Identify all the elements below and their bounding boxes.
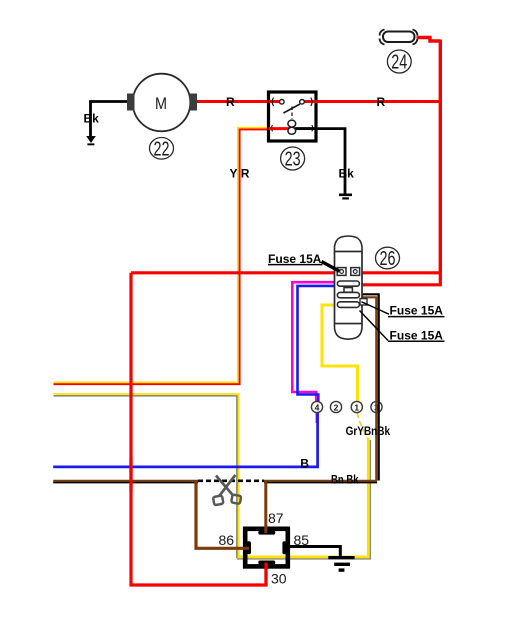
switch blade xyxy=(284,104,301,113)
small clip right xyxy=(360,299,367,305)
blade link dashes xyxy=(291,107,293,120)
label Fuse 15A low xyxy=(360,311,445,343)
svg-text:Bn Bk: Bn Bk xyxy=(331,475,359,487)
red vertical left long xyxy=(131,273,266,585)
svg-text:GrYBnBk: GrYBnBk xyxy=(346,426,391,438)
svg-text:R: R xyxy=(241,167,250,181)
label 23 xyxy=(281,147,305,171)
wire GrY bottom grey xyxy=(237,440,371,559)
wire YR red line xyxy=(54,129,291,384)
svg-text:Fuse 15A: Fuse 15A xyxy=(390,304,444,318)
wire R switch 23 to red bus xyxy=(317,100,440,103)
svg-text:26: 26 xyxy=(380,248,396,270)
svg-text:Y: Y xyxy=(230,167,238,181)
wire brown into relay 87 xyxy=(264,482,267,533)
svg-text:Bk: Bk xyxy=(84,112,100,126)
wire brown into relay 86 xyxy=(196,481,249,548)
scissors xyxy=(213,475,241,505)
svg-text:4: 4 xyxy=(315,403,320,413)
label 24 xyxy=(387,50,411,74)
svg-text:Bk: Bk xyxy=(339,167,355,181)
fuse link row B xyxy=(337,292,359,297)
svg-text:30: 30 xyxy=(271,571,287,587)
red bus vertical right xyxy=(439,40,442,273)
wire yellow from fuse to pin1 xyxy=(322,305,358,402)
wire Bk from coil to ground xyxy=(296,129,345,194)
svg-text:Fuse 15A: Fuse 15A xyxy=(390,329,444,343)
wire YR yellow line xyxy=(54,128,272,383)
label Fuse 15A mid xyxy=(362,302,445,318)
label Fuse 15A top xyxy=(268,252,340,271)
wire Bk motor to ground (top left) xyxy=(91,102,130,141)
relay bottom xyxy=(245,529,288,567)
red feed inside to contact xyxy=(269,100,281,103)
black coil out inside xyxy=(294,127,317,130)
wire blue from fuse xyxy=(298,286,335,402)
fuse link row C xyxy=(337,302,359,308)
magenta stub below pin4 xyxy=(316,412,318,423)
label 22 xyxy=(150,138,174,161)
svg-text:2: 2 xyxy=(334,403,339,413)
connector pin 4 xyxy=(311,401,322,412)
wire GrY overlay at cut crossing xyxy=(238,474,240,488)
svg-text:87: 87 xyxy=(268,510,284,526)
contact circles xyxy=(280,100,285,105)
red bus horizontal main xyxy=(131,271,442,274)
svg-text:B: B xyxy=(300,457,309,471)
svg-text:86: 86 xyxy=(219,532,235,548)
wire GrY grey line xyxy=(54,396,237,558)
red feed inside to coil xyxy=(269,127,291,130)
motor M22 body xyxy=(127,74,197,132)
ground (bottom) xyxy=(328,556,354,572)
wire GrY bottom yellow xyxy=(238,438,369,557)
label 26 xyxy=(376,247,400,270)
svg-text:24: 24 xyxy=(391,52,407,74)
wire black relay 85 to ground xyxy=(285,547,340,557)
wire brown from fuse right xyxy=(362,297,376,480)
svg-text:M: M xyxy=(155,94,167,113)
wire BnBk horizontal xyxy=(53,481,377,483)
svg-text:23: 23 xyxy=(285,149,301,171)
clip squares xyxy=(337,268,346,276)
wire GrY yellow line xyxy=(54,394,239,556)
pin marks xyxy=(272,98,273,107)
connector pin 1 xyxy=(351,401,362,412)
connector pin 2 xyxy=(330,401,341,412)
wire red into relay 30 xyxy=(264,563,267,587)
ground (top left) xyxy=(86,136,96,145)
wire blue pin4 down to B line xyxy=(53,412,317,467)
wire black from fuse right xyxy=(362,294,379,480)
ground (below 23) xyxy=(339,194,352,200)
component 24 pill xyxy=(380,30,418,45)
svg-text:R: R xyxy=(226,95,235,109)
wire R motor to switch 23 xyxy=(196,100,267,103)
wire magenta from fuse xyxy=(292,282,334,402)
wire yellow pin1 down slant xyxy=(358,412,368,438)
svg-text:1: 1 xyxy=(354,403,359,413)
red vertical overlay at line crossings xyxy=(129,458,132,492)
fuse block 26 xyxy=(335,236,368,339)
svg-text:22: 22 xyxy=(154,138,170,160)
svg-text:R: R xyxy=(377,95,386,109)
wire cut dashes xyxy=(198,479,264,482)
coil xyxy=(288,120,296,127)
red branch to fuse right side xyxy=(362,273,440,285)
middle block xyxy=(344,288,352,293)
wire R from 24 to red bus vertical xyxy=(417,38,441,42)
switch box 23 xyxy=(269,92,318,141)
connector pin 3 xyxy=(371,401,382,412)
fuse link row A xyxy=(337,281,359,286)
